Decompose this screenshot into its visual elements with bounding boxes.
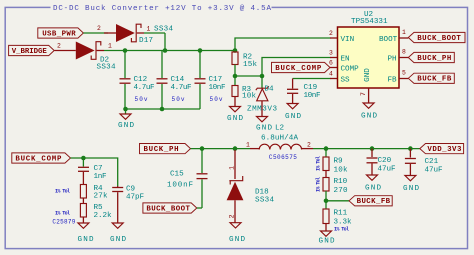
ground below C19 bbox=[285, 104, 301, 122]
junction VDD at R9 bbox=[324, 146, 329, 151]
label USB_PWR bbox=[38, 28, 84, 39]
capacitor C7 bbox=[78, 158, 89, 185]
svg-text:C25879: C25879 bbox=[52, 218, 75, 225]
junction bottom at C14 bbox=[160, 107, 165, 112]
wire D17 cathode down to main net bbox=[144, 33, 165, 51]
svg-text:2: 2 bbox=[307, 142, 311, 149]
svg-text:2: 2 bbox=[329, 30, 333, 37]
svg-text:1: 1 bbox=[402, 29, 406, 36]
svg-text:1: 1 bbox=[229, 166, 236, 170]
svg-text:2: 2 bbox=[97, 25, 101, 32]
svg-text:1% Tol: 1% Tol bbox=[55, 188, 70, 194]
svg-text:C20: C20 bbox=[378, 157, 392, 165]
ground below C21 bbox=[403, 176, 419, 194]
svg-text:270: 270 bbox=[334, 187, 348, 195]
label BUCK_PH bbox=[408, 52, 454, 63]
junction main net at C12 bbox=[123, 48, 128, 53]
svg-text:BUCK_PH: BUCK_PH bbox=[417, 55, 451, 63]
svg-text:VDD_3V3: VDD_3V3 bbox=[427, 146, 462, 154]
wire VDD net bbox=[313, 148, 420, 150]
capacitor C14 bbox=[157, 51, 168, 110]
wire USB_PWR to D17 bbox=[83, 32, 108, 34]
svg-text:BUCK_BOOT: BUCK_BOOT bbox=[146, 205, 190, 213]
svg-text:GND: GND bbox=[365, 185, 381, 193]
capacitor C20 bbox=[367, 149, 378, 175]
svg-text:D17: D17 bbox=[139, 37, 153, 45]
svg-text:6: 6 bbox=[329, 59, 333, 66]
resistor R10 bbox=[323, 178, 329, 201]
ground below C20 bbox=[365, 175, 381, 193]
label BUCK_COMP (to COMP pin) bbox=[272, 62, 338, 73]
junction bottom at C12 bbox=[123, 107, 128, 112]
svg-text:L2: L2 bbox=[275, 124, 285, 132]
svg-text:1% Tol: 1% Tol bbox=[316, 177, 322, 192]
svg-text:EN: EN bbox=[341, 55, 350, 63]
svg-text:BUCK_PH: BUCK_PH bbox=[144, 146, 179, 154]
ground below R11 bbox=[319, 231, 335, 246]
svg-text:C9: C9 bbox=[126, 186, 136, 194]
svg-text:3.3k: 3.3k bbox=[334, 218, 352, 226]
wire BUCK_COMP net bbox=[71, 158, 118, 186]
svg-text:GND: GND bbox=[110, 236, 126, 244]
svg-text:SS34: SS34 bbox=[97, 63, 116, 71]
svg-text:C15: C15 bbox=[170, 170, 184, 178]
svg-text:47uF: 47uF bbox=[378, 165, 396, 173]
wire PH net to L2 bbox=[191, 148, 251, 150]
svg-text:6.8uH/4A: 6.8uH/4A bbox=[261, 134, 298, 142]
svg-text:GND: GND bbox=[78, 236, 94, 244]
svg-text:1% Tol: 1% Tol bbox=[334, 226, 349, 232]
junction main net at C17 bbox=[198, 48, 203, 53]
wire main +12V net bbox=[104, 50, 235, 52]
svg-text:C21: C21 bbox=[425, 158, 439, 166]
svg-text:BUCK_BOOT: BUCK_BOOT bbox=[417, 35, 461, 43]
ground below D18 bbox=[229, 223, 245, 244]
ground below U2 pin 7 bbox=[361, 103, 377, 120]
junction main net at x165 bbox=[163, 48, 168, 53]
svg-text:4: 4 bbox=[329, 70, 333, 77]
svg-text:50v: 50v bbox=[172, 96, 185, 103]
resistor R5 bbox=[80, 204, 86, 224]
junction VDD at C20 bbox=[370, 146, 375, 151]
ground below D4 bbox=[256, 117, 272, 133]
svg-text:D4: D4 bbox=[265, 86, 275, 94]
svg-text:PH: PH bbox=[388, 55, 397, 63]
ground below R5 bbox=[78, 223, 94, 244]
svg-text:5: 5 bbox=[402, 69, 406, 76]
label V_BRIDGE bbox=[9, 45, 55, 56]
svg-text:GND: GND bbox=[256, 124, 272, 132]
label BUCK_BOOT bbox=[408, 32, 465, 43]
svg-text:1% Tol: 1% Tol bbox=[316, 156, 322, 171]
pin BOOT stub bbox=[399, 37, 408, 39]
label BUCK_PH (bottom) bbox=[140, 144, 191, 155]
svg-text:4.7uF: 4.7uF bbox=[134, 84, 155, 92]
svg-text:BOOT: BOOT bbox=[379, 36, 398, 44]
svg-text:BUCK_COMP: BUCK_COMP bbox=[15, 155, 62, 163]
svg-text:GND: GND bbox=[364, 68, 372, 82]
svg-text:DC-DC Buck Converter +12V To +: DC-DC Buck Converter +12V To +3.3V @ 4.5… bbox=[53, 5, 271, 13]
resistor R3 bbox=[232, 76, 238, 107]
junction PH at D18 bbox=[233, 146, 238, 151]
svg-text:50v: 50v bbox=[210, 96, 223, 103]
svg-text:7: 7 bbox=[360, 92, 367, 96]
pin FB stub bbox=[399, 78, 408, 80]
svg-text:100nF: 100nF bbox=[167, 182, 193, 190]
svg-text:C7: C7 bbox=[94, 165, 103, 173]
resistor R4 bbox=[80, 185, 86, 204]
label BUCK_BOOT (bottom) bbox=[143, 203, 202, 214]
diode D2 bbox=[55, 42, 105, 60]
svg-text:GND: GND bbox=[319, 238, 335, 246]
svg-text:C12: C12 bbox=[134, 76, 148, 84]
svg-text:2.2k: 2.2k bbox=[94, 212, 112, 220]
wire to VIN bbox=[235, 38, 338, 51]
capacitor C15 bbox=[197, 149, 208, 208]
wire capacitor bottoms bbox=[125, 108, 200, 110]
svg-text:2: 2 bbox=[229, 214, 236, 218]
svg-text:C14: C14 bbox=[171, 76, 185, 84]
svg-text:1: 1 bbox=[108, 43, 112, 50]
junction BUCK_COMP at C7 bbox=[81, 156, 86, 161]
svg-text:47uF: 47uF bbox=[425, 166, 443, 174]
capacitor C9 bbox=[112, 186, 123, 223]
ground below C9 bbox=[110, 223, 126, 244]
svg-text:TPS54331: TPS54331 bbox=[351, 18, 388, 26]
svg-text:GND: GND bbox=[403, 185, 419, 193]
svg-text:10k: 10k bbox=[334, 166, 348, 174]
junction main net at R2 bbox=[233, 48, 238, 53]
svg-text:R10: R10 bbox=[334, 178, 348, 186]
resistor R11 bbox=[323, 201, 329, 231]
svg-text:R11: R11 bbox=[334, 209, 348, 217]
svg-text:1% Tol: 1% Tol bbox=[55, 210, 70, 216]
svg-text:BUCK_COMP: BUCK_COMP bbox=[275, 65, 322, 73]
junction EN at D4 bbox=[260, 74, 265, 79]
svg-text:C19: C19 bbox=[304, 84, 318, 92]
svg-text:BUCK_FB: BUCK_FB bbox=[417, 76, 452, 84]
svg-text:SS34: SS34 bbox=[255, 197, 274, 205]
capacitor C19 bbox=[287, 79, 338, 104]
IC U2 TPS54331 bbox=[338, 27, 400, 88]
svg-text:27k: 27k bbox=[94, 192, 108, 200]
junction VDD at C21 bbox=[408, 146, 413, 151]
svg-text:1: 1 bbox=[246, 142, 250, 149]
svg-text:GND: GND bbox=[285, 113, 301, 121]
svg-text:COMP: COMP bbox=[341, 65, 360, 73]
resistor R2 bbox=[232, 51, 238, 77]
svg-text:50v: 50v bbox=[135, 96, 148, 103]
svg-text:GND: GND bbox=[229, 236, 245, 244]
svg-text:R5: R5 bbox=[94, 204, 104, 212]
svg-text:GND: GND bbox=[227, 115, 243, 123]
svg-text:1nF: 1nF bbox=[94, 173, 107, 181]
diode D18 bbox=[227, 150, 244, 223]
svg-text:GND: GND bbox=[361, 112, 377, 120]
svg-text:SS34: SS34 bbox=[154, 25, 173, 33]
label BUCK_FB (right of U2) bbox=[408, 73, 454, 84]
svg-text:FB: FB bbox=[388, 76, 398, 84]
svg-text:D18: D18 bbox=[255, 189, 269, 197]
svg-text:GND: GND bbox=[118, 122, 134, 130]
svg-text:ZMM3V3: ZMM3V3 bbox=[247, 106, 277, 114]
svg-text:R9: R9 bbox=[334, 157, 344, 165]
svg-text:USB_PWR: USB_PWR bbox=[42, 30, 76, 38]
svg-text:C506575: C506575 bbox=[269, 154, 297, 161]
capacitor C17 bbox=[195, 51, 206, 110]
capacitor C21 bbox=[405, 149, 416, 176]
wire FB to label bbox=[326, 200, 349, 202]
svg-text:10nF: 10nF bbox=[209, 84, 226, 92]
junction PH at C15 bbox=[200, 146, 205, 151]
pin 7 GND stub bbox=[360, 88, 369, 103]
inductor L2 bbox=[250, 144, 313, 149]
svg-text:BUCK_FB: BUCK_FB bbox=[357, 198, 391, 206]
junction EN divider bbox=[233, 74, 238, 79]
svg-text:15k: 15k bbox=[243, 61, 257, 69]
svg-text:10k: 10k bbox=[242, 93, 256, 101]
zener diode D4 bbox=[256, 76, 269, 117]
svg-text:47pF: 47pF bbox=[126, 193, 144, 201]
pin PH stub bbox=[399, 57, 408, 59]
svg-text:VIN: VIN bbox=[341, 36, 355, 44]
resistor R9 bbox=[323, 149, 329, 178]
svg-text:1: 1 bbox=[147, 25, 151, 32]
ground below C12 bbox=[118, 109, 134, 130]
wire EN net bbox=[235, 58, 338, 77]
svg-text:SS: SS bbox=[341, 76, 351, 84]
svg-text:10nF: 10nF bbox=[304, 92, 321, 100]
svg-text:8: 8 bbox=[402, 49, 406, 56]
label BUCK_FB (bottom) bbox=[349, 196, 392, 207]
svg-text:2: 2 bbox=[57, 43, 61, 50]
svg-text:3: 3 bbox=[329, 49, 333, 56]
capacitor C12 bbox=[120, 51, 131, 110]
diode D17 bbox=[104, 24, 144, 42]
label BUCK_COMP (bottom left) bbox=[12, 153, 71, 164]
svg-text:C17: C17 bbox=[209, 76, 223, 84]
svg-text:V_BRIDGE: V_BRIDGE bbox=[12, 48, 48, 56]
svg-text:4.7uF: 4.7uF bbox=[171, 84, 192, 92]
label VDD_3V3 bbox=[420, 144, 464, 155]
ground below R3 bbox=[227, 107, 243, 124]
junction FB bbox=[324, 199, 329, 204]
